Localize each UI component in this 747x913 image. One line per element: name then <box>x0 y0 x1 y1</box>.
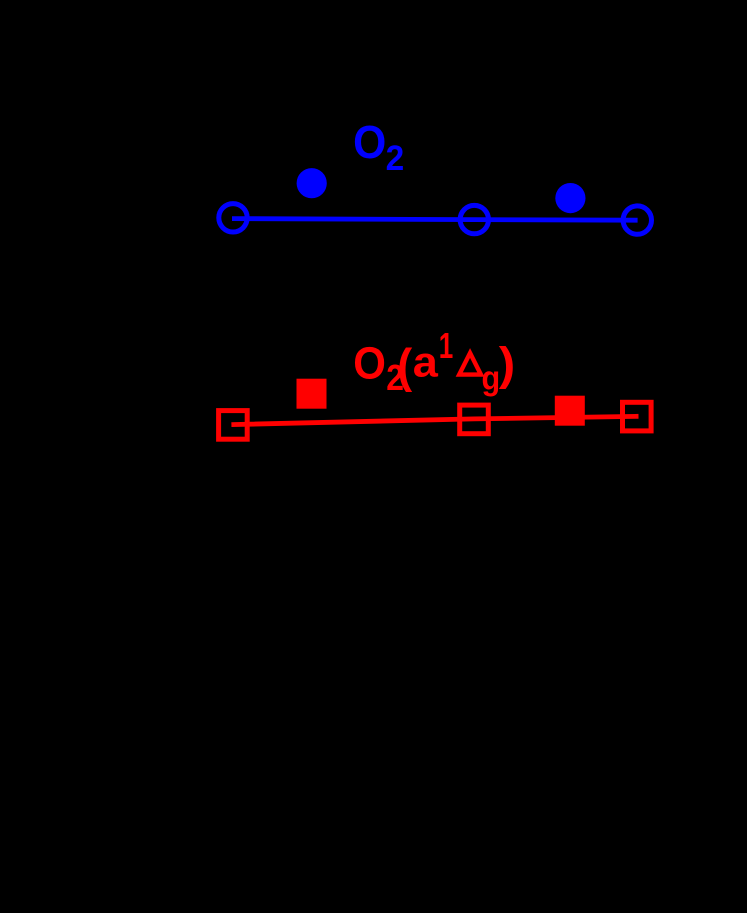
red filled square marker 2 <box>555 396 585 426</box>
blue label O2 <box>353 117 404 178</box>
blue filled circle marker 2 <box>555 183 585 213</box>
svg-text:a: a <box>413 339 439 386</box>
svg-text:O: O <box>353 117 386 168</box>
red label O2(a1Dg) <box>353 325 515 399</box>
blue open circle marker 1 <box>219 204 247 232</box>
svg-text:(: ( <box>397 339 413 392</box>
svg-text:): ) <box>499 339 515 390</box>
blue open circle marker 2 <box>460 205 488 233</box>
blue series O2 line <box>232 219 638 221</box>
red filled square marker 1 <box>297 379 327 409</box>
blue open circle marker 3 <box>623 206 651 234</box>
red open square marker 3 <box>623 402 652 431</box>
red open square marker 2 <box>460 405 489 434</box>
svg-text:1: 1 <box>439 325 454 366</box>
svg-text:O: O <box>353 338 386 389</box>
blue filled circle marker 1 <box>297 168 327 198</box>
red open square marker 1 <box>219 411 248 440</box>
svg-text:2: 2 <box>386 139 405 178</box>
red series O2(a1Dg) line <box>231 416 638 424</box>
svg-text:g: g <box>482 359 501 397</box>
